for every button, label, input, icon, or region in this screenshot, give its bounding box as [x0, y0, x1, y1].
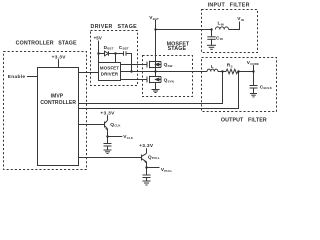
capacitor C_IN	[211, 30, 213, 37]
wire qclk emitter down	[107, 129, 109, 143]
node cbst/phase	[130, 70, 132, 72]
IMVP controller box U1	[38, 68, 79, 166]
wire vcore stub	[253, 65, 255, 72]
diode D_BST	[105, 51, 109, 56]
wire L to resistor	[218, 71, 226, 73]
mosfet stage dashed box	[143, 56, 193, 97]
wire controller to QCLK base	[79, 124, 105, 126]
svg-text:VPULL: VPULL	[161, 167, 173, 173]
inductor L output	[207, 69, 218, 71]
node +5V/diode	[97, 52, 99, 54]
svg-text:CIN: CIN	[216, 35, 223, 41]
wire +3.3V to controller	[58, 59, 60, 67]
svg-text:DBST: DBST	[104, 45, 114, 51]
wire +5V stub	[98, 41, 100, 54]
svg-text:RS: RS	[227, 63, 233, 69]
node RS/sense	[237, 70, 239, 72]
wire driver vcc pin	[98, 54, 100, 63]
node vbat branch	[154, 28, 156, 30]
svg-text:L: L	[211, 64, 214, 70]
capacitor C_BST	[123, 51, 125, 56]
svg-text:CBULK: CBULK	[260, 84, 273, 90]
wire vbat to input filter	[156, 29, 212, 31]
wire cbst to phase	[126, 54, 132, 72]
inductor L_IN	[215, 27, 228, 30]
transistor Q_PULL	[142, 148, 147, 163]
wire diode cathode to boot node	[109, 53, 124, 55]
wire vbat vertical	[155, 20, 157, 62]
svg-text:CBST: CBST	[119, 45, 129, 51]
output filter dashed box	[202, 58, 277, 112]
svg-text:QCLK: QCLK	[110, 122, 121, 128]
node L/RS	[221, 70, 223, 72]
controller stage dashed box	[4, 52, 87, 170]
node vclk	[106, 135, 108, 137]
wire qsyn source to ground	[155, 83, 157, 90]
svg-text:CONTROLLER STAGE: CONTROLLER STAGE	[16, 40, 77, 46]
capacitor C at VPULL	[143, 174, 151, 176]
wire controller to QPULL base	[79, 157, 142, 159]
svg-text:Enable: Enable	[8, 74, 26, 80]
node boot	[114, 52, 116, 54]
ground input filter	[207, 45, 216, 49]
wire rs to vcore node	[238, 71, 254, 73]
svg-text:DRIVER STAGE: DRIVER STAGE	[91, 24, 138, 30]
wire enable	[27, 76, 38, 78]
node vpull	[145, 166, 147, 168]
resistor R_S	[226, 69, 238, 74]
svg-text:VCORE: VCORE	[247, 60, 259, 66]
svg-text:QPULL: QPULL	[148, 154, 160, 160]
ground output filter	[250, 94, 257, 97]
svg-text:VCLK: VCLK	[123, 134, 134, 140]
wire feedback 2	[79, 72, 239, 109]
wire qpull emitter down	[146, 162, 148, 175]
node phase/chain	[154, 70, 156, 72]
svg-text:OUTPUT FILTER: OUTPUT FILTER	[221, 117, 267, 123]
mosfet Q_SYN	[147, 72, 161, 84]
wire phase node	[121, 71, 208, 73]
ground vpull	[143, 181, 151, 185]
wire diode anode	[99, 53, 105, 55]
mosfet Q_SW	[147, 61, 161, 72]
wire after L_IN to V_IN	[229, 22, 240, 30]
wire feedback 1	[79, 72, 223, 104]
wire vclk	[108, 136, 123, 138]
ground mosfet stage	[152, 90, 160, 93]
svg-text:INPUT FILTER: INPUT FILTER	[208, 2, 250, 8]
svg-text:QSW: QSW	[164, 62, 173, 68]
wire driver boot pin	[115, 54, 117, 63]
wire vpull	[147, 167, 160, 169]
mosfet driver box U2	[99, 63, 121, 81]
node vcore	[252, 70, 254, 72]
svg-text:QSYN: QSYN	[164, 78, 174, 84]
ground vclk	[104, 150, 112, 154]
wire high gate	[121, 64, 148, 66]
svg-text:CONTROLLER: CONTROLLER	[40, 100, 76, 106]
svg-text:VIN: VIN	[237, 16, 244, 22]
svg-text:+3.3V: +3.3V	[100, 110, 115, 116]
wire controller PWM to driver	[79, 72, 99, 74]
svg-text:+5V: +5V	[94, 35, 102, 40]
svg-text:+3.3V: +3.3V	[139, 143, 154, 149]
capacitor C_BULK	[253, 72, 255, 86]
capacitor C at VCLK	[104, 143, 112, 145]
svg-text:IMVP: IMVP	[51, 94, 64, 100]
svg-text:MOSFET: MOSFET	[100, 66, 119, 71]
transistor Q_CLK	[105, 115, 108, 130]
driver stage dashed box	[91, 31, 138, 86]
svg-text:LIN: LIN	[218, 21, 224, 27]
wire low gate	[121, 79, 148, 81]
svg-text:+3.3V: +3.3V	[52, 54, 67, 60]
svg-text:VBAT: VBAT	[149, 15, 159, 21]
svg-text:DRIVER: DRIVER	[101, 71, 119, 76]
node input filter LC	[210, 28, 212, 30]
input filter dashed box	[202, 10, 258, 53]
svg-text:STAGE: STAGE	[168, 46, 187, 52]
